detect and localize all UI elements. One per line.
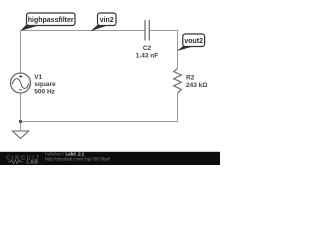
wire: V1 bottom terminal down to ground junction: [20, 93, 22, 122]
wire: R2 bottom down to bottom-right corner: [177, 93, 179, 121]
wire: top net from C2 right plate to top-right corner and down to R2 top: [150, 31, 178, 69]
svg-text:highpassfilter: highpassfilter: [28, 17, 74, 24]
svg-text:R2: R2: [186, 74, 195, 81]
svg-text:vout2: vout2: [184, 38, 203, 45]
svg-text:243 kΩ: 243 kΩ: [186, 82, 207, 89]
wire: ground stub below junction: [20, 122, 22, 132]
net flag: vout2 tail: [177, 45, 193, 51]
ground symbol: [13, 131, 29, 139]
net flag: highpassfilter box: [27, 13, 76, 26]
svg-text:C2: C2: [143, 45, 152, 52]
svg-text:LAB: LAB: [27, 160, 39, 165]
voltage source V1 plus sign: [19, 75, 23, 78]
voltage source V1 sine glyph: [12, 79, 29, 89]
node: junction dot at ground net: [19, 120, 22, 123]
svg-text:http://circuitlab.com/c7qe7367: http://circuitlab.com/c7qe73673bwf: [45, 156, 110, 161]
svg-text:1.43 nF: 1.43 nF: [136, 53, 158, 60]
resistor R2 zigzag: [174, 69, 182, 94]
svg-text:square: square: [34, 81, 56, 88]
net flag: highpassfilter tail: [20, 24, 38, 31]
voltage source V1 minus sign: [19, 89, 23, 91]
net flag: vin2 tail: [90, 24, 107, 31]
svg-text:500 Hz: 500 Hz: [34, 89, 55, 96]
watermark bar: [0, 152, 220, 165]
net flag: vout2 box: [183, 34, 205, 47]
svg-text:vin2: vin2: [100, 17, 114, 24]
watermark logo resistor zigzag: [8, 160, 23, 164]
capacitor C2 right plate: [148, 20, 150, 41]
wire: left vertical from top corner down to V1 top terminal: [20, 31, 22, 74]
capacitor C2 left plate: [144, 20, 146, 41]
net flag: vin2 box: [98, 13, 117, 26]
svg-text:V1: V1: [34, 74, 42, 81]
voltage source V1 body: [11, 73, 31, 93]
wire: bottom net from right corner to ground junction: [21, 121, 178, 123]
wire: top net from left corner to C2 left plate: [21, 30, 145, 32]
